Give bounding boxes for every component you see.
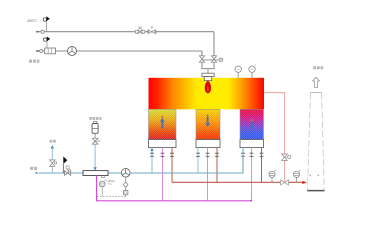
burner BR1: [202, 73, 214, 76]
valve V7 on feed line: [65, 171, 71, 175]
flue drain pipe CB1: [171, 148, 173, 183]
valve V2 with D tag: [148, 30, 156, 34]
feedwater header H1: [83, 171, 108, 176]
valve V3 burner left: [199, 56, 204, 62]
pipe L2 drop to burner: [201, 51, 203, 56]
water feed pipe riser CB2: [197, 148, 199, 173]
blower B1: [68, 47, 77, 56]
valve V5 on flue line: [282, 154, 288, 160]
label fuel gas: [29, 60, 39, 63]
flag marker F1: [45, 21, 47, 32]
label dosing unit: [89, 117, 101, 120]
dosing pot DP1: [94, 121, 97, 123]
valve V1 flanged: [135, 30, 138, 33]
node L2 start connector: [36, 50, 39, 52]
gauge G3: [296, 177, 298, 182]
label stack gas: [313, 66, 323, 69]
flame: [205, 81, 211, 94]
pilot circle PC1: [219, 58, 223, 62]
convection bank CB1: [149, 109, 177, 139]
valve V8 dosing: [92, 138, 98, 144]
pipe fuel line L2: [38, 50, 202, 52]
pipe air line L1: [38, 31, 214, 33]
flue gas line from furnace: [264, 93, 285, 183]
valve V4 burner right: [211, 56, 216, 62]
convection bank CB3: [240, 109, 264, 139]
gauge LG1: [99, 181, 105, 187]
valve V9 on collector: [281, 180, 289, 185]
blowdown pipe CB3: [251, 148, 253, 201]
arrow up in CB1: [161, 116, 163, 118]
blowdown pipe CB1: [162, 148, 164, 201]
flue drain pipe CB2: [216, 148, 218, 183]
dosing line to header: [94, 144, 96, 170]
filter FL1 on fuel line: [45, 48, 56, 54]
flue drain pipe CB3: [261, 148, 263, 183]
arrow into stack: [302, 181, 307, 184]
water feed pipe riser CB1: [151, 148, 153, 173]
CB1 header box: [149, 140, 177, 148]
svg-text:400°C: 400°C: [27, 19, 37, 23]
svg-text:T L: T L: [108, 182, 112, 186]
main feedwater line: [39, 148, 244, 173]
blowdown pipe CB2: [207, 148, 209, 201]
feed pump P1: [121, 169, 130, 178]
stack S1: [308, 93, 325, 191]
CB2 header box: [196, 140, 220, 148]
union fittings row: [150, 153, 263, 156]
stack exit arrow: [313, 77, 320, 87]
arrow down in CB2: [207, 115, 209, 117]
pump drain assembly: [125, 177, 127, 182]
vent riser: [51, 149, 53, 173]
node L1 start connector: [36, 31, 39, 33]
label vent: [50, 140, 56, 143]
node feedwater start: [36, 172, 38, 174]
flag marker F2: [46, 42, 48, 48]
flag marker F3: [62, 164, 64, 173]
pipe burner manifold: [202, 62, 214, 73]
flue gas collector line: [172, 181, 303, 183]
furnace radiant section: [149, 78, 265, 110]
svg-text:D: D: [151, 26, 154, 30]
CB3 header box: [240, 140, 264, 148]
label feedwater: [30, 167, 37, 170]
pipe L1 drop to burner: [213, 32, 215, 56]
pipe burner cross line: [202, 59, 219, 61]
instrument PI1 on furnace roof: [251, 72, 253, 78]
convection bank CB2: [196, 109, 220, 139]
water feed pipe riser CB3: [242, 148, 244, 173]
instrument TI1 on furnace roof: [237, 72, 239, 78]
blowdown header line: [97, 176, 252, 201]
arrow down in CB3: [251, 119, 253, 121]
dashed drain line: [97, 195, 126, 197]
gauge G2: [271, 177, 273, 182]
valve V6 on vent riser: [50, 160, 56, 166]
